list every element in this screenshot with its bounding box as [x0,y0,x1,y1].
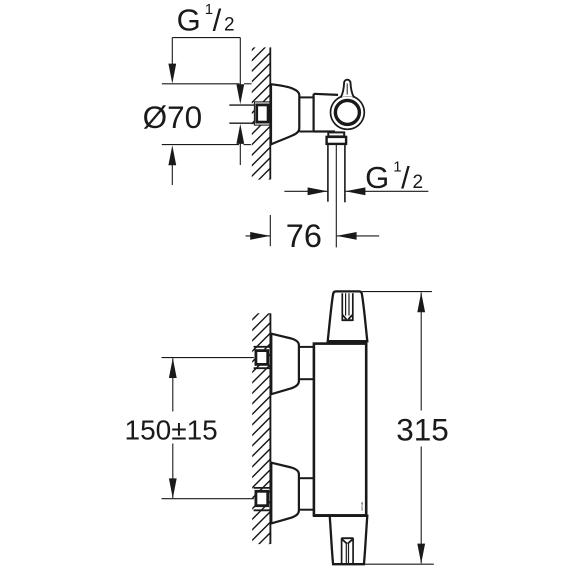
arrow left to pipe centerline [337,232,357,240]
handle ring inner [335,100,359,124]
svg-text:/: / [401,160,410,195]
extension line top of mixer [362,291,432,293]
hose collar below valve [328,132,344,136]
arrow up to supply pipe bottom [236,124,244,144]
dim: G 1/2 label top [177,1,235,38]
handle/body junction line [328,341,368,343]
supply pipe stub in wall (top figure) [229,105,254,123]
wall line (bottom figure) [269,313,271,544]
arrow down to escutcheon top line [168,64,176,84]
dim: G 1/2 label right [365,159,423,196]
dim line 76, right segment [337,235,379,237]
lever pin [341,80,354,98]
neck top [299,347,315,379]
svg-text:2: 2 [224,15,235,36]
pipe centerline [335,145,337,247]
svg-text:76: 76 [286,218,322,254]
valve neck [299,97,313,131]
extension line bottom of mixer [364,563,434,565]
svg-text:315: 315 [396,412,449,448]
union nipple top (bottom figure) [254,347,271,368]
arrow up to upper connection centerline [169,358,177,378]
wall hatching (bottom figure) [242,296,276,572]
handle ring outer [331,96,365,130]
outlet pipe [328,144,345,202]
dim line G1/2 right, right segment [346,190,429,192]
valve body [314,94,340,132]
arrow right to wall plane [250,232,270,240]
svg-text:150±15: 150±15 [125,415,218,446]
svg-text:/: / [213,3,222,38]
S-union cone top [271,334,299,395]
mixer body [314,344,366,516]
arrow up to mixer top [417,292,425,312]
arrow down to supply pipe top [236,84,244,104]
arrow down to lower connection centerline [169,478,177,498]
body bottom junction line [313,514,367,517]
svg-text:Ø70: Ø70 [143,99,203,135]
svg-text:G: G [365,160,389,195]
volume handle (bottom) [330,516,368,564]
dim line G1/2 right, left segment [284,190,327,192]
extension line escutcheon bottom [162,144,251,146]
wall plane extension line for 76 [269,215,271,246]
thermostat handle (top) [328,291,368,341]
wall hatching (top figure) [242,26,276,207]
svg-text:GROHE: GROHE [360,502,364,511]
union nipple bottom (bottom figure) [254,488,271,510]
escutcheon (top figure) [271,84,299,144]
S-union cone bottom [271,463,299,524]
dim leader lines G1/2 top [172,38,240,185]
dim line 150±15 (broken by text) [172,358,174,498]
arrow left to pipe right edge [345,187,365,195]
svg-text:G: G [177,3,201,38]
svg-text:2: 2 [413,172,424,193]
union nipple (top figure) [254,102,270,125]
arrow right to pipe left edge [308,187,328,195]
grip slot top handle [342,293,353,321]
neck bottom [299,478,315,510]
dim line 76, left segment [246,235,271,237]
extension line escutcheon top [162,83,252,85]
arrow down to mixer bottom [417,544,425,564]
dim 150 extension line bottom [162,498,254,500]
wall line (top figure) [269,47,271,179]
dim 150 extension line top [162,357,254,359]
grip slot bottom handle [342,538,354,564]
dim line 315 (broken by text) [420,292,422,563]
arrow up to escutcheon bottom line [168,145,176,165]
